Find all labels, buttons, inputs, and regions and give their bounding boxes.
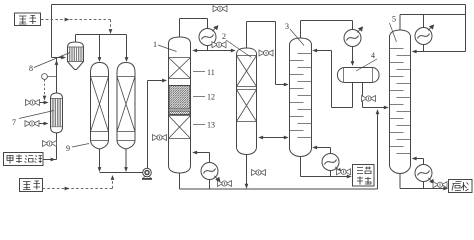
column 2 packing upper X (237, 56, 257, 87)
svg-text:11: 11 (207, 68, 215, 77)
wire: drum bottoms feed to column 5 (363, 83, 386, 108)
svg-text:7: 7 (12, 118, 16, 127)
label 7 (12, 111, 54, 128)
pump P1 (142, 168, 152, 179)
label 3 (285, 22, 304, 46)
valve V10 on waste water line (433, 182, 447, 188)
column 5 trays (390, 49, 411, 154)
wire: column 1 bottoms collection line (180, 110, 378, 189)
heat exchanger E4 reboiler (column 3) (322, 154, 341, 173)
label 13 (193, 121, 215, 130)
arrow: signal to valve A (43, 96, 47, 101)
column 3 shell (290, 38, 312, 157)
column 1 packing section 13 (169, 116, 191, 139)
arrow: feed into column 3 (284, 83, 289, 87)
arrow: column 2 bottoms to header (245, 184, 249, 189)
instrument bubble TI (42, 74, 57, 80)
wire: feed header into vessel 8 (52, 57, 63, 59)
label 11 (193, 68, 215, 77)
arrow: feed into column 1 (162, 79, 167, 83)
wire: overhead methanol recycle header (52, 5, 466, 58)
node methanol solution box (4, 153, 44, 166)
arrow: into vessel 8 (61, 56, 66, 60)
wire: drum reflux back to column 3 (315, 51, 353, 108)
arrow: recycle riser up to column 5 feed (376, 109, 380, 114)
node waste water box (449, 180, 473, 193)
wire: cross line between column 2 and 3 (261, 137, 285, 139)
valve V6 near column 2 bottoms (252, 170, 266, 176)
wire: condensate into drum (352, 47, 354, 63)
arrow: product into trioxane box (347, 175, 352, 179)
arrow: regen return flow (65, 187, 70, 191)
valve V9 on product line (337, 169, 351, 175)
wire: condensate line to exchanger (39, 123, 45, 125)
label 8 (29, 53, 70, 74)
label 4 (356, 51, 377, 71)
wire: dashed regeneration return line (43, 178, 113, 189)
heat exchanger E2 reboiler (column 1) (201, 163, 220, 182)
arrow: waste water into box (443, 187, 448, 191)
arrow: into adsorber B top (125, 57, 129, 62)
column 2 shell (237, 48, 257, 155)
valve V4 on condensate line (212, 42, 226, 48)
arrow: reboiler return into column 3 (312, 146, 317, 150)
heat exchanger E1 condenser (199, 25, 218, 45)
column 1 support strip (169, 111, 191, 114)
arrow: reflux into column 3 (312, 49, 317, 53)
arrow: regen line flow (65, 18, 70, 22)
wire: column 5 bottoms to waste water (400, 174, 445, 189)
arrow: regen up to adsorber header (111, 175, 115, 180)
heat exchanger E3 condenser (344, 26, 363, 46)
arrow: into column 2 side (258, 136, 263, 140)
wire: adsorber bottoms header (100, 172, 143, 174)
arrow: regen into adsorber header (109, 29, 113, 34)
arrow: into reflux drum (351, 61, 355, 66)
wire: column 3 overhead to condenser (301, 21, 353, 39)
wire: column 5 reboiler return (415, 159, 424, 166)
wire: column 1 overhead to condenser (180, 19, 208, 38)
vessel 8 (guard filter) (68, 35, 84, 70)
arrow: reboiler return into column 1 (192, 151, 197, 155)
valve V2 on column 1 feed riser (153, 135, 167, 141)
svg-text:5: 5 (392, 15, 396, 24)
label 1 (153, 40, 177, 52)
arrow: condensate into exchanger (44, 122, 49, 126)
label 2 (222, 32, 252, 58)
svg-text:1: 1 (153, 40, 157, 49)
wire: condensate distribution line (196, 46, 234, 51)
reflux drum 4 (338, 68, 380, 83)
wire: dashed control signal (44, 79, 46, 97)
heat exchanger E5 condenser (415, 24, 434, 44)
svg-text:9: 9 (66, 144, 70, 153)
arrow: reboiler return into column 5 (412, 157, 417, 161)
arrow: reflux into column 5 (412, 50, 417, 54)
arrow: reflux into column 1 (192, 49, 197, 53)
wire: column 2 bottoms (246, 155, 248, 187)
arrow: into adsorber A top (98, 57, 102, 62)
heat exchanger 7 (methanol preheater) (43, 58, 63, 160)
label 12 (193, 93, 215, 102)
wire: column 2 overhead to column 3 feed (247, 22, 286, 85)
wire: pump discharge riser to column 1 feed (148, 81, 164, 169)
wire: column 5 overhead loop (400, 15, 466, 52)
wire: adsorber feed header (76, 35, 127, 59)
column 5 shell (390, 30, 411, 174)
valve B (condensate outlet) (25, 121, 39, 127)
column 1 packing section 11 (169, 58, 191, 79)
wire: column 3 reboiler return (315, 148, 331, 154)
svg-text:4: 4 (371, 51, 375, 60)
heat exchanger E6 reboiler (column 5) (415, 165, 434, 184)
svg-text:3: 3 (285, 22, 289, 31)
arrow: steam into exchanger (44, 101, 49, 105)
node regeneration box (bottom) (20, 179, 43, 192)
valve V3 on methanol feed riser (43, 141, 57, 147)
svg-text:2: 2 (222, 32, 226, 41)
valve V8 on drum bottoms (362, 96, 376, 102)
valve V1 on recycle header (213, 6, 227, 12)
wire: column 1 reboiler return (195, 153, 210, 163)
arrow: feed into column 5 (384, 106, 389, 110)
arrow: adsorber A bottoms (98, 167, 102, 172)
column 1 catalyst bed 12 (hatched) (169, 86, 191, 110)
valve V5 on column 2 overhead (259, 50, 273, 56)
wire: steam line to exchanger (40, 102, 46, 104)
column 3 trays (290, 54, 312, 138)
adsorber column 9B (117, 63, 135, 169)
node regeneration box (top) (15, 13, 41, 26)
arrow: feed into column 2 (231, 49, 236, 53)
arrow: adsorber B bottoms (124, 167, 128, 172)
node trioxane product box (353, 165, 375, 187)
label 5 (390, 15, 397, 43)
wire: dashed regeneration supply line (41, 20, 111, 30)
column 1 shell (169, 37, 191, 173)
valve V7 on bottoms line (218, 181, 232, 187)
svg-text:13: 13 (207, 121, 215, 130)
column 2 packing lower X (237, 90, 257, 122)
wire: column 3 bottoms to product (301, 157, 349, 177)
arrow: into column 3 side (284, 136, 289, 140)
label 9 (66, 144, 89, 154)
valve A (steam inlet) (26, 100, 40, 106)
adsorber column 9A (91, 63, 109, 169)
svg-text:8: 8 (29, 64, 33, 73)
arrow: methanol feed toward riser (51, 158, 56, 162)
arrow: junction into feed header (55, 60, 59, 65)
svg-text:12: 12 (207, 93, 215, 102)
